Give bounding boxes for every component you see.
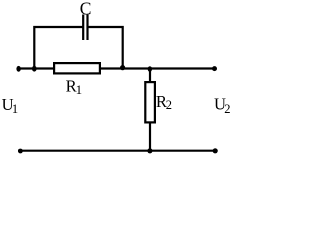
svg-text:1: 1 bbox=[12, 102, 18, 116]
svg-text:C: C bbox=[80, 0, 92, 19]
svg-text:1: 1 bbox=[76, 82, 83, 97]
svg-text:2: 2 bbox=[166, 98, 172, 112]
svg-text:2: 2 bbox=[224, 102, 230, 116]
